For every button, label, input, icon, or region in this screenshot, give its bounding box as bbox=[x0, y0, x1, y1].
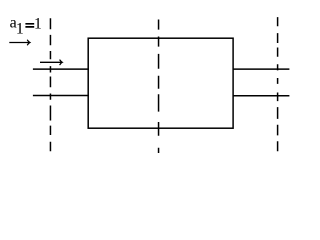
wire: port 2 upper lead bbox=[233, 68, 290, 70]
reference plane 2 (right dashed line, x=277.6) bbox=[277, 17, 279, 151]
svg-text:1: 1 bbox=[16, 19, 24, 38]
reference plane mid (center dashed line, x=158.4) bbox=[158, 20, 160, 154]
two-port network box U1 bbox=[88, 38, 233, 128]
arrow on port 1 upper lead (wave direction a1) bbox=[40, 60, 62, 65]
wire: port 2 lower lead bbox=[233, 95, 290, 97]
wire: port 1 upper lead bbox=[33, 68, 89, 70]
wire: port 1 lower lead bbox=[33, 95, 89, 97]
arrow under a1=1 label bbox=[9, 40, 30, 45]
reference plane 1 (left dashed line, x=50.2) bbox=[49, 18, 51, 151]
svg-text:1: 1 bbox=[34, 16, 42, 33]
